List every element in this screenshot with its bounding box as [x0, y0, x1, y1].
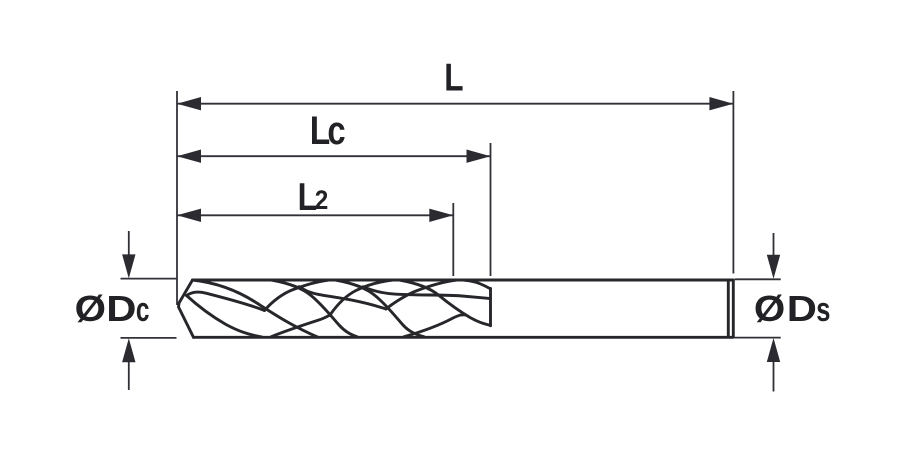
flute tail from tip facet kink [187, 296, 263, 338]
drill top edge [193, 279, 734, 282]
flute S-curve T400 into notch [400, 280, 491, 325]
arrowhead Dc down [122, 254, 135, 278]
arrowhead Ds up [767, 338, 780, 362]
svg-text:c: c [136, 291, 150, 329]
stub line Dc top [121, 278, 177, 280]
drill bottom edge [194, 336, 734, 339]
stub line Ds top [735, 278, 781, 280]
arrow shaft Dc bottom [128, 360, 130, 390]
shank shoulder curve S464 [464, 280, 491, 289]
margin riser from vertex to top edge [386, 280, 458, 309]
flute S-curve from tip corner [193, 280, 319, 337]
stub line Dc bottom [121, 337, 177, 339]
drill outline: tip point [179, 280, 194, 337]
arrowhead Ds down [767, 255, 780, 279]
arrow shaft Ds bottom [773, 361, 775, 392]
riser from D1 vertex crossing X336 to top edge [330, 280, 394, 315]
svg-text:2: 2 [315, 186, 329, 215]
svg-text:Ø: Ø [75, 289, 106, 330]
extension line L2 end [452, 203, 454, 276]
arrowhead L2 left [177, 209, 201, 222]
flute fade curve at runout [363, 287, 491, 299]
dimension line L2 [177, 214, 453, 216]
arrowhead Dc up [122, 338, 135, 362]
arrowhead Lc right [467, 150, 491, 163]
arrowhead L right [709, 97, 733, 110]
svg-text:Ø: Ø [754, 289, 785, 330]
flute S-curve T336 [336, 280, 424, 337]
shank end cap [727, 281, 730, 338]
arrow shaft Ds top [773, 233, 775, 258]
margin flat curve to vertex on S336 [299, 287, 386, 309]
arrowhead L left [177, 97, 201, 110]
dimension line Lc [177, 155, 491, 157]
arrowhead Lc left [177, 150, 201, 163]
dimension line L [177, 103, 733, 105]
arrowhead L2 right [429, 209, 453, 222]
svg-text:s: s [816, 292, 830, 329]
flute S-curve T272 [272, 280, 357, 337]
svg-text:D: D [787, 290, 817, 330]
extension line right (shank end) [732, 91, 734, 274]
arrow shaft Dc top [128, 231, 130, 258]
heel V-curve D1 rising to vertex on S272 [271, 315, 330, 337]
margin riser from leaf vertex to top edge [265, 280, 331, 311]
svg-text:c: c [327, 108, 345, 153]
extension line Lc end [490, 143, 492, 276]
runout vertical edge [489, 289, 492, 326]
heel V-curve D2 rising to vertex on S400 [404, 315, 466, 337]
svg-text:L: L [444, 56, 463, 100]
leaf edge from kink to vertex on corner curve [187, 292, 265, 310]
stub line Ds bottom [735, 337, 781, 339]
extension line left (tip) [176, 91, 178, 305]
svg-text:D: D [106, 290, 136, 330]
